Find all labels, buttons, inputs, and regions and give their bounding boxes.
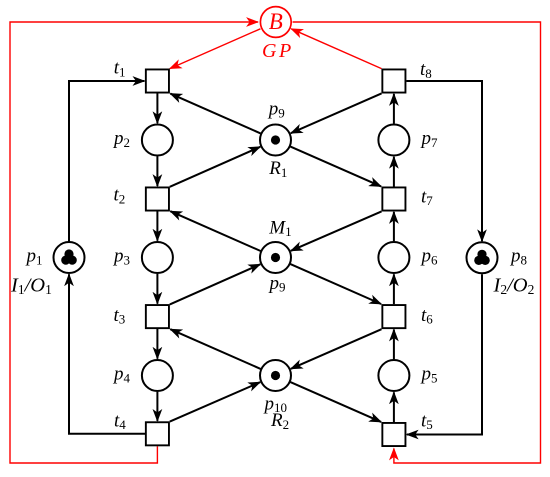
svg-text:p6: p6	[420, 246, 439, 268]
place p9 (R1) with token	[260, 125, 291, 156]
transition t8	[382, 69, 405, 92]
svg-text:t6: t6	[421, 305, 433, 327]
place p5	[378, 360, 409, 391]
svg-text:t4: t4	[114, 410, 126, 432]
wire t4 to p1	[69, 274, 145, 434]
svg-text:p2: p2	[112, 128, 130, 150]
svg-text:p7: p7	[420, 128, 439, 150]
place M1 (p9) with token	[260, 242, 291, 273]
svg-text:p1: p1	[25, 246, 43, 268]
wire M1 to t2	[170, 211, 260, 251]
svg-text:t1: t1	[114, 58, 126, 80]
wire t4 to p10	[170, 382, 260, 421]
svg-text:GP: GP	[262, 40, 294, 62]
wire p7 to t8	[393, 94, 395, 124]
transition t6	[382, 305, 405, 328]
wire p6 to t7	[393, 212, 395, 241]
transition t1	[146, 69, 169, 92]
wire t5 to p5	[393, 392, 395, 422]
wire t6 to p6	[393, 274, 395, 304]
svg-text:R1: R1	[268, 158, 287, 180]
wire t2 to p9	[170, 147, 260, 187]
svg-text:p8: p8	[509, 246, 527, 268]
svg-text:t3: t3	[114, 305, 126, 327]
wire t7 to p7	[393, 157, 395, 187]
transition t3	[146, 305, 169, 328]
wire p9 to t7	[290, 147, 381, 187]
svg-text:t2: t2	[114, 185, 126, 207]
wire t8 to p8	[406, 81, 482, 241]
place p8 with 3-token cluster	[467, 242, 498, 273]
wire p5 to t6	[393, 330, 395, 360]
wire t8 to B (red diagonal)	[291, 29, 381, 69]
wire t2 to p3	[156, 211, 158, 240]
wire p10 to t5	[290, 382, 381, 422]
place p10 (R2) with token	[260, 360, 291, 391]
svg-text:t5: t5	[421, 410, 433, 432]
svg-text:p9: p9	[268, 273, 286, 295]
place p1 with 3-token cluster	[54, 242, 85, 273]
svg-text:I2/O2: I2/O2	[493, 274, 535, 297]
transition t7	[382, 187, 405, 210]
wire B to t5 via right border (red)	[293, 22, 541, 463]
place p7	[378, 125, 409, 156]
svg-text:p9: p9	[267, 99, 285, 121]
place p6	[378, 242, 409, 273]
wire B to t1 (red diagonal)	[170, 29, 261, 69]
wire t7 to M1	[291, 211, 382, 250]
svg-text:p3: p3	[112, 246, 130, 268]
wire t3 to M1	[170, 264, 260, 304]
svg-text:M1: M1	[268, 217, 291, 239]
wire t4 to B via left border (red)	[10, 22, 258, 463]
wire p2 to t2	[156, 156, 158, 186]
wire t3 to p4	[156, 329, 158, 359]
wire t1 to p2	[156, 93, 158, 123]
place p2	[142, 125, 173, 156]
svg-text:p4: p4	[112, 364, 131, 386]
wire M1 to t6	[290, 264, 381, 304]
place p4	[142, 360, 173, 391]
svg-text:B: B	[269, 9, 283, 34]
svg-text:t8: t8	[420, 59, 432, 81]
transition t4	[146, 422, 169, 445]
wire p8 to t5	[407, 274, 482, 434]
wire t6 to p10	[291, 329, 382, 369]
wire p1 to t1	[69, 81, 144, 242]
wire t8 to p9	[291, 93, 382, 133]
place p3	[142, 242, 173, 273]
transition t2	[146, 187, 169, 210]
svg-text:p5: p5	[420, 364, 438, 386]
wire p3 to t3	[156, 274, 158, 304]
transition t5	[382, 423, 405, 446]
wire p9 to t1	[170, 94, 260, 134]
wire p10 to t3	[170, 329, 260, 369]
wire p4 to t4	[156, 392, 158, 421]
svg-text:t7: t7	[421, 186, 433, 208]
svg-text:I1/O1: I1/O1	[10, 274, 52, 297]
place B (GP)	[260, 7, 291, 38]
